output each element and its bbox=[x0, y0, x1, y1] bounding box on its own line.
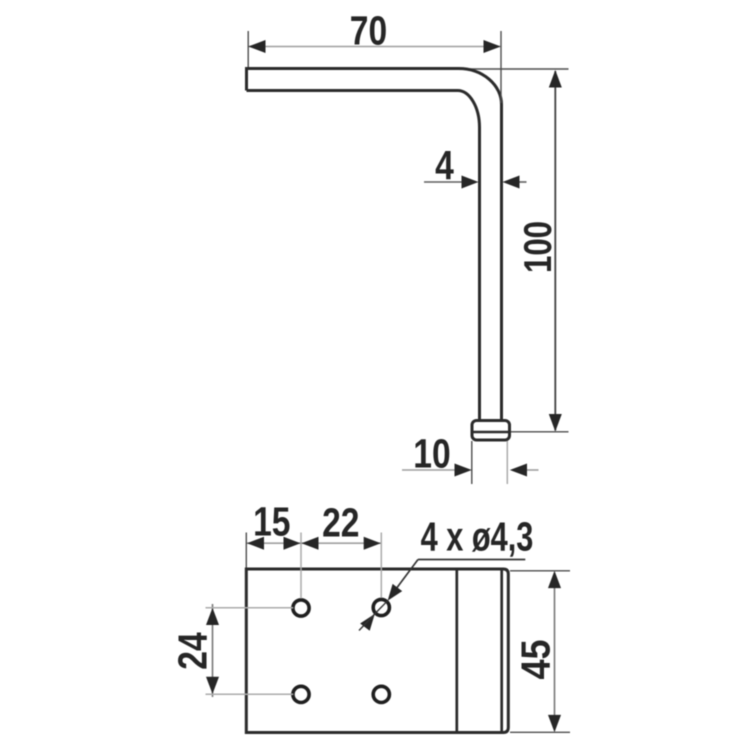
dimension 70: extension line left bbox=[247, 31, 249, 67]
dimension 22: left arrowhead bbox=[302, 537, 319, 550]
dimension 45: bottom extension line bbox=[510, 731, 570, 733]
hole callout: underline bbox=[418, 559, 525, 561]
dimension 45: value label (rotated) bbox=[513, 639, 559, 679]
hole top-right bbox=[373, 599, 389, 615]
dimension 15: extension line left bbox=[245, 533, 247, 568]
svg-text:10: 10 bbox=[413, 430, 450, 476]
hole callout: leader diagonal upper bbox=[390, 560, 418, 598]
dimension 100: bottom arrowhead bbox=[549, 414, 562, 432]
svg-text:45: 45 bbox=[513, 639, 559, 679]
dimension 100: value label (rotated) bbox=[517, 221, 560, 273]
bracket profile outer edge (side view) bbox=[247, 69, 502, 421]
hole callout: upper arrowhead bbox=[388, 584, 403, 601]
dimension 15: right arrowhead bbox=[284, 537, 301, 550]
dimension 10: right leader line bbox=[525, 469, 539, 471]
hole callout: leader through hole bbox=[375, 601, 388, 614]
hole bottom-left bbox=[293, 686, 309, 702]
dimension 4: left arrowhead bbox=[462, 176, 479, 189]
dimension 22: extension line right bbox=[380, 533, 382, 598]
dimension 10: right arrowhead bbox=[510, 464, 527, 477]
dimension 10: left leader line bbox=[402, 469, 456, 471]
dimension 15: left arrowhead bbox=[247, 537, 264, 550]
plate arm outer face line (top view) bbox=[500, 571, 503, 732]
dimension 24: bottom extension line bbox=[206, 693, 294, 695]
dimension 4: value label bbox=[435, 142, 454, 188]
svg-text:15: 15 bbox=[253, 498, 290, 544]
dimension 24: top extension line bbox=[206, 607, 294, 609]
dimension 4: right arrowhead bbox=[503, 176, 520, 189]
bracket profile inner edge (side view) bbox=[247, 91, 480, 421]
dimension 24: bottom arrowhead bbox=[206, 677, 219, 694]
dimension 100: top extension line bbox=[462, 68, 569, 70]
svg-text:100: 100 bbox=[517, 221, 560, 273]
dimension 4: right leader line bbox=[518, 181, 527, 183]
dimension 45: bottom arrowhead bbox=[548, 715, 561, 732]
dimension 15: value label bbox=[253, 498, 290, 544]
hole callout: lower arrowhead bbox=[360, 614, 375, 631]
hole bottom-right bbox=[373, 686, 389, 702]
dimension 70: dimension line bbox=[249, 46, 500, 48]
dimension 15/22: dimension line bbox=[247, 542, 381, 544]
dimension 22: value label bbox=[322, 499, 359, 545]
dimension 22: right arrowhead bbox=[364, 537, 381, 550]
dimension 24: dimension line bbox=[212, 604, 214, 697]
svg-text:4 x ø4,3: 4 x ø4,3 bbox=[421, 513, 534, 559]
dimension 100: dimension line bbox=[554, 71, 556, 431]
dimension 10: value label bbox=[413, 430, 450, 476]
svg-text:4: 4 bbox=[435, 142, 454, 188]
plate bend tangent line (top view) bbox=[455, 571, 458, 732]
dimension 10: right extension line bbox=[506, 441, 508, 484]
hole top-left bbox=[293, 600, 309, 616]
dimension 45: dimension line bbox=[554, 573, 556, 730]
hole callout 4 x dia 4,3: text label bbox=[421, 513, 534, 559]
dimension 70: left arrowhead bbox=[248, 40, 265, 53]
dimension 70: extension line right bbox=[500, 31, 502, 103]
dimension 100: bottom extension line bbox=[510, 431, 569, 433]
dimension 70: value label bbox=[350, 7, 387, 53]
dimension 10: left extension line bbox=[471, 441, 473, 484]
svg-text:22: 22 bbox=[322, 499, 359, 545]
dimension 45: top arrowhead bbox=[548, 571, 561, 588]
dimension 24: top arrowhead bbox=[206, 608, 219, 625]
dimension 24: value label (rotated) bbox=[169, 632, 215, 670]
bracket foot cap (side view) bbox=[472, 421, 510, 441]
dimension 10: left arrowhead bbox=[455, 464, 472, 477]
svg-text:24: 24 bbox=[169, 632, 215, 670]
dimension 100: top arrowhead bbox=[549, 70, 562, 88]
dimension 15/22: extension line middle bbox=[300, 533, 302, 599]
mounting plate outline (top view) bbox=[246, 569, 508, 733]
dimension 45: top extension line bbox=[510, 570, 570, 572]
dimension 70: right arrowhead bbox=[484, 40, 501, 53]
hole callout: leader tail bbox=[359, 614, 375, 631]
svg-text:70: 70 bbox=[350, 7, 387, 53]
dimension 4: left leader line bbox=[424, 181, 463, 183]
